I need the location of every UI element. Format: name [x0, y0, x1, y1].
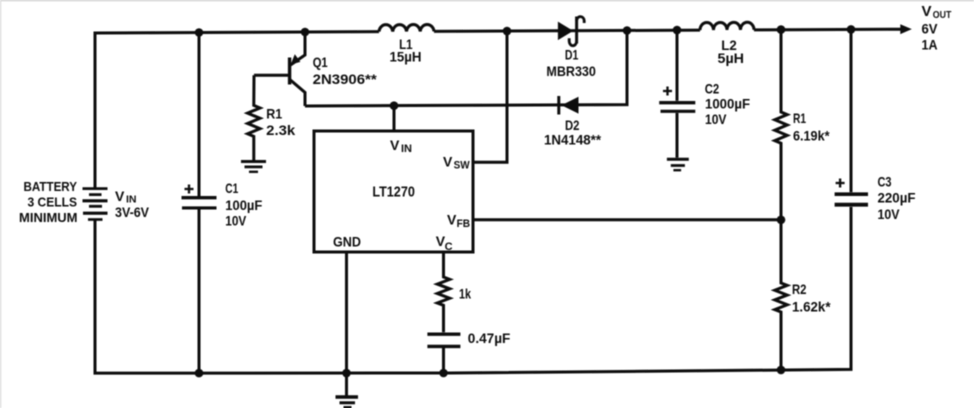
svg-text:10V: 10V — [225, 213, 247, 229]
svg-text:V: V — [115, 188, 125, 204]
svg-text:3 CELLS: 3 CELLS — [28, 194, 78, 209]
svg-text:V: V — [447, 212, 457, 228]
svg-text:6V: 6V — [922, 21, 939, 37]
svg-text:1k: 1k — [459, 286, 471, 302]
svg-text:D1: D1 — [565, 47, 579, 63]
svg-text:C3: C3 — [878, 173, 892, 189]
svg-text:3V-6V: 3V-6V — [115, 205, 149, 220]
svg-text:6.19k*: 6.19k* — [793, 128, 830, 144]
svg-text:1A: 1A — [922, 37, 938, 53]
svg-text:R1: R1 — [266, 106, 282, 122]
svg-text:IN: IN — [401, 143, 412, 155]
svg-text:V: V — [390, 137, 400, 153]
svg-text:R2: R2 — [792, 281, 807, 297]
svg-text:V: V — [443, 154, 453, 170]
svg-text:C: C — [445, 241, 453, 253]
svg-text:IN: IN — [126, 193, 137, 205]
svg-text:R1: R1 — [793, 110, 806, 126]
svg-text:1000µF: 1000µF — [705, 95, 750, 111]
svg-text:SW: SW — [454, 160, 471, 172]
svg-text:10V: 10V — [878, 206, 901, 222]
svg-text:MINIMUM: MINIMUM — [19, 210, 78, 225]
svg-text:LT1270: LT1270 — [372, 184, 415, 201]
svg-text:2N3906**: 2N3906** — [313, 71, 378, 87]
svg-text:1N4148**: 1N4148** — [544, 132, 602, 148]
svg-text:0.47µF: 0.47µF — [468, 330, 511, 346]
svg-text:OUT: OUT — [933, 9, 952, 21]
svg-text:1.62k*: 1.62k* — [792, 299, 831, 315]
svg-text:10V: 10V — [705, 111, 727, 127]
svg-text:15µH: 15µH — [390, 49, 422, 65]
svg-text:C2: C2 — [705, 81, 720, 97]
svg-text:5µH: 5µH — [718, 50, 745, 66]
svg-text:BATTERY: BATTERY — [24, 179, 78, 194]
svg-text:100µF: 100µF — [225, 197, 262, 213]
svg-text:FB: FB — [457, 218, 471, 230]
svg-text:2.3k: 2.3k — [266, 122, 295, 138]
svg-text:MBR330: MBR330 — [546, 63, 596, 79]
svg-text:220µF: 220µF — [878, 190, 916, 206]
svg-text:C1: C1 — [225, 180, 238, 196]
svg-text:Q1: Q1 — [313, 54, 328, 70]
svg-text:V: V — [922, 3, 932, 20]
svg-text:GND: GND — [333, 234, 361, 250]
